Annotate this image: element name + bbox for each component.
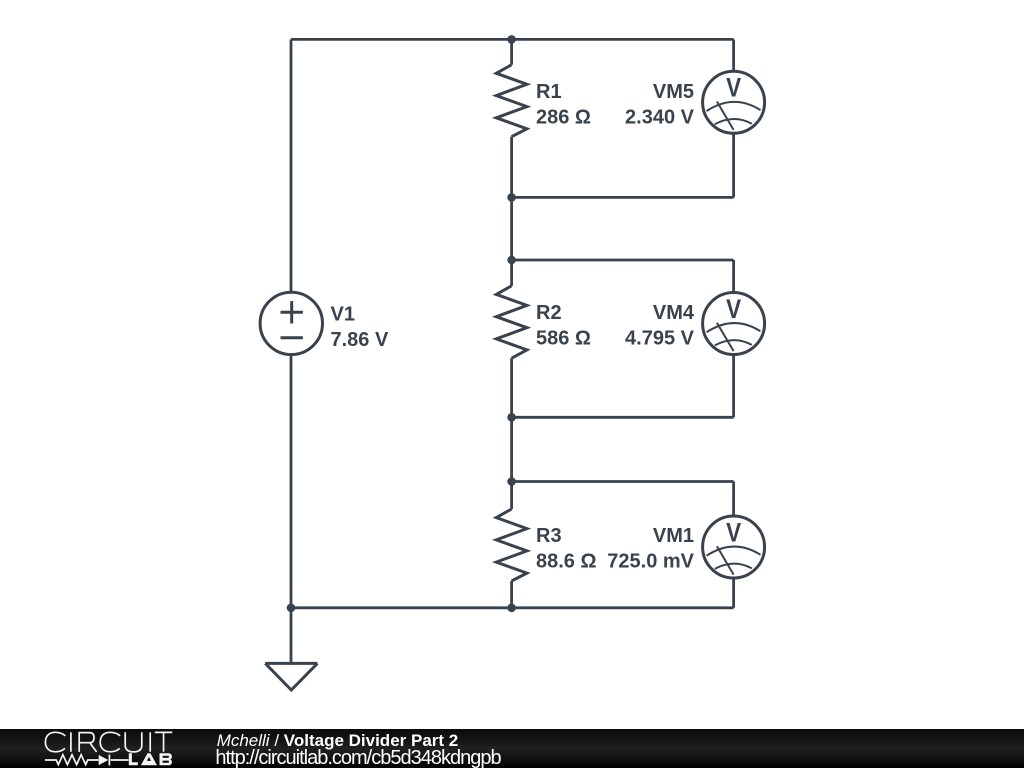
voltmeter VM5: [703, 71, 765, 133]
svg-text:2.340 V: 2.340 V: [625, 107, 695, 129]
svg-text:R1: R1: [536, 81, 562, 103]
wire middle column R2 bottom lead: [510, 358, 513, 417]
wire loop3 right upper (VM1 top lead): [732, 482, 735, 516]
CircuitLab logo: [0, 729, 200, 768]
resistor R1: [496, 65, 527, 137]
node A (top junction): [507, 35, 516, 44]
wire loop1 right lower (VM5 bottom lead): [732, 134, 735, 198]
svg-text:V1: V1: [331, 304, 355, 326]
wire loop1 bottom: [512, 196, 734, 199]
wire middle column R3 bottom lead: [510, 581, 513, 608]
voltage source V1: [260, 292, 322, 354]
wire left rail upper: [290, 39, 293, 291]
node C (loop2 top junction): [507, 256, 516, 265]
wire bottom rail: [291, 606, 734, 609]
voltmeter VM1: [703, 516, 765, 578]
svg-text:4.795 V: 4.795 V: [625, 328, 695, 350]
footer url: [215, 748, 500, 768]
wire middle column between loop2 and loop3: [510, 417, 513, 481]
svg-text:V: V: [726, 295, 742, 324]
svg-text:7.86 V: 7.86 V: [331, 329, 389, 351]
wire middle column R1 top lead: [510, 39, 513, 64]
wire middle column R3 top lead: [510, 482, 513, 510]
node F (bottom middle junction): [507, 604, 516, 613]
resistor R3 labels: [536, 525, 597, 573]
svg-text:88.6 Ω: 88.6 Ω: [536, 551, 597, 573]
svg-text:VM5: VM5: [653, 81, 694, 103]
voltage source V1 labels: [331, 304, 389, 352]
node G (ground junction): [287, 604, 296, 613]
wire loop3 top: [512, 480, 734, 483]
voltmeter VM5 labels: [625, 81, 695, 129]
svg-text:586 Ω: 586 Ω: [536, 328, 591, 350]
wire loop2 right lower (VM4 bottom lead): [732, 355, 735, 418]
node D (R2-R3 junction): [507, 413, 516, 422]
voltmeter VM1 labels: [607, 525, 694, 573]
svg-text:725.0 mV: 725.0 mV: [607, 551, 694, 573]
footer title: [217, 732, 459, 749]
resistor R2: [496, 286, 527, 358]
svg-text:R2: R2: [536, 302, 562, 324]
svg-text:VM4: VM4: [653, 302, 695, 324]
voltmeter VM4 labels: [625, 302, 695, 350]
svg-text:286 Ω: 286 Ω: [536, 107, 591, 129]
resistor R1 labels: [536, 81, 591, 129]
footer band: [0, 729, 1024, 768]
wire middle column R1 bottom lead to node: [510, 137, 513, 198]
svg-text:R3: R3: [536, 525, 562, 547]
wire loop2 right upper (VM4 top lead): [732, 260, 735, 292]
resistor R3: [496, 509, 527, 581]
resistor R2 labels: [536, 302, 591, 350]
ground: [265, 663, 317, 690]
wire loop2 bottom: [512, 416, 734, 419]
svg-text:VM1: VM1: [653, 525, 694, 547]
wire middle column R2 top lead: [510, 260, 513, 286]
wire left rail lower: [290, 355, 293, 608]
wire loop2 top: [512, 259, 734, 262]
wire ground lead: [290, 608, 293, 664]
node E (loop3 top junction): [507, 477, 516, 486]
svg-text:V: V: [726, 74, 742, 103]
wire loop3 right lower (VM1 bottom lead): [732, 578, 735, 608]
node B (R1-R2 junction): [507, 193, 516, 202]
svg-text:V: V: [726, 519, 742, 548]
wire loop1 right upper (VM5 top lead): [732, 39, 735, 71]
voltmeter VM4: [703, 293, 765, 355]
wire middle column between loop1 and loop2: [510, 197, 513, 260]
wire top rail: [291, 38, 734, 41]
